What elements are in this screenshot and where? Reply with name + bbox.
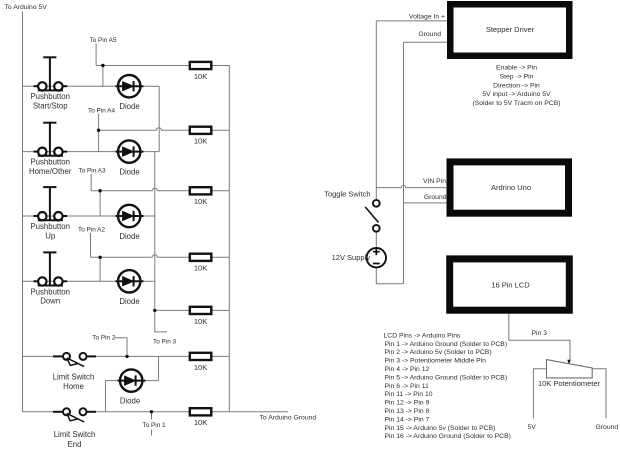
wire diode5 row [106,380,119,382]
svg-text:Pin 12 -> Pin 9: Pin 12 -> Pin 9 [385,400,430,407]
svg-text:To Pin 1: To Pin 1 [143,422,167,429]
svg-text:Pin 1 -> Arduino Ground (Solde: Pin 1 -> Arduino Ground (Solder to PCB) [385,341,508,348]
wire voltage in to stepper [376,20,447,22]
wire row3 button wire [23,215,119,217]
svg-text:Pushbutton: Pushbutton [30,92,69,101]
svg-text:To Pin A4: To Pin A4 [88,108,115,115]
wire row6 resistor right lead [211,355,229,357]
pushbutton Home/Other [29,123,72,176]
svg-text:Pin 11 -> Pin 10: Pin 11 -> Pin 10 [385,391,433,398]
wire row1 resistor right lead [211,65,229,67]
svg-text:10K: 10K [194,197,208,206]
svg-text:Direction -> Pin: Direction -> Pin [493,82,540,89]
svg-text:To Arduino 5V: To Arduino 5V [5,4,48,11]
wire arduino ground [404,202,447,204]
resistor R5 10K [190,307,212,326]
node junction dot row3 [98,189,101,192]
svg-text:10K: 10K [194,317,208,326]
svg-text:Ground: Ground [596,424,619,431]
pushbutton Down [30,252,69,305]
battery B1 12V supply [332,248,386,267]
wire limit end row [23,411,54,413]
wire pin3 row5 wire [155,309,190,311]
wire row1 pin stub [95,44,97,66]
resistor R4 10K [190,254,212,273]
wire ground bus right [403,42,405,284]
svg-text:Ground: Ground [418,31,441,38]
svg-text:Pin 14 -> Pin 7: Pin 14 -> Pin 7 [385,416,430,423]
node junction dot pin1 [150,410,153,413]
svg-text:Enable -> Pin: Enable -> Pin [496,65,537,72]
svg-text:Diode: Diode [119,167,139,176]
svg-text:Ground: Ground [424,194,447,201]
svg-text:Pin 4 -> Pin 12: Pin 4 -> Pin 12 [385,366,430,373]
limit switch Home [53,353,96,391]
svg-text:To Pin 2: To Pin 2 [92,334,116,341]
wire pot left to 5V [533,369,546,419]
svg-text:Limit Switch: Limit Switch [54,430,96,439]
diode D2 [116,140,144,176]
resistor R6 10K [190,353,212,372]
svg-text:Diode: Diode [120,397,140,406]
wire pin2 stub [114,338,127,357]
wire supply to ground bus [376,267,403,283]
resistor R2 10K [190,127,212,146]
wire stepper ground [404,41,448,43]
svg-text:Pin 5 -> Arduino Ground (Solde: Pin 5 -> Arduino Ground (Solder to PCB) [385,374,508,381]
svg-text:10K: 10K [194,363,208,372]
wire pin1 stub [151,412,153,436]
wire right ground bus [228,66,230,412]
wire row4 pin wire with hop [91,255,190,258]
svg-text:Ardrino Uno: Ardrino Uno [491,183,531,192]
svg-text:Toggle Switch: Toggle Switch [324,190,370,199]
wire row3 drop to button [99,191,101,216]
wire row5 resistor right lead [211,309,229,311]
svg-text:Pin 2 -> Arduino 5v (Solder to: Pin 2 -> Arduino 5v (Solder to PCB) [385,349,492,356]
svg-text:To Pin A2: To Pin A2 [78,227,105,234]
wire diode5 anode down to end row [105,381,107,412]
svg-text:Pushbutton: Pushbutton [30,222,69,231]
svg-text:LCD Pins -> Arduino Pins: LCD Pins -> Arduino Pins [384,332,461,339]
diode D3 [116,205,144,241]
svg-text:Pushbutton: Pushbutton [30,287,69,296]
svg-text:To Pin A5: To Pin A5 [90,37,117,44]
wire lcd pin3 to pot [509,314,570,362]
wire row4 drop to button [99,257,101,281]
wire pot right to ground [592,369,606,419]
svg-text:Limit Switch: Limit Switch [53,373,95,382]
svg-text:12V Supply: 12V Supply [332,253,371,262]
svg-text:VIN Pin: VIN Pin [423,178,446,185]
diode D1 [116,75,144,111]
svg-text:10K: 10K [194,264,208,273]
IC U3 16 Pin LCD box [446,255,573,313]
wire row7 resistor right lead [211,411,229,413]
wire row2 resistor right lead [211,129,229,131]
node junction dot row4 [98,256,101,259]
svg-text:16 Pin LCD: 16 Pin LCD [491,280,530,289]
resistor R3 10K [190,187,212,206]
wire row2 button wire [23,151,119,153]
wire row4 button wire [23,280,119,282]
wire row4 resistor right lead [211,256,229,258]
node junction dot pin3 [153,309,156,312]
wire row3 pin stub [90,174,92,191]
wire diode5 cathode up to home row [158,356,160,380]
IC U1 Stepper Driver box [447,1,573,59]
wire row3 pin wire with hop [91,188,190,191]
wire row4 pin stub [90,233,92,257]
node junction dot pin2 [125,355,128,358]
svg-text:Start/Stop: Start/Stop [33,102,68,111]
switch S1 toggle switch [324,190,379,232]
node To Arduino 5V [5,4,48,11]
wire row3 resistor right lead [211,190,229,192]
node junction dot row2 [97,129,100,132]
svg-text:Diode: Diode [119,102,139,111]
svg-text:(Solder to 5V Tracm on PCB): (Solder to 5V Tracm on PCB) [472,100,560,107]
node To Arduino Ground [260,415,317,422]
wire limit home row [23,355,54,357]
wire VIN vertical [376,21,606,419]
diode D5 [118,369,146,405]
pushbutton Up [30,187,69,240]
node stepper notes [472,65,560,108]
svg-text:To Pin A3: To Pin A3 [79,167,106,174]
svg-text:Pin 6 -> Pin 11: Pin 6 -> Pin 11 [385,383,429,390]
wire row1 drop to button [102,66,104,87]
resistor VR1 10K potentiometer [538,360,601,389]
svg-text:10K: 10K [194,418,208,427]
wire arduino VIN with hop [376,185,446,187]
svg-text:Pin 3: Pin 3 [532,330,548,337]
svg-text:Pushbutton: Pushbutton [30,158,69,167]
wire row2 pin stub [98,114,100,131]
svg-text:Pin 13 -> Pin 8: Pin 13 -> Pin 8 [385,408,430,415]
svg-text:Home: Home [63,382,84,391]
svg-text:Pin 3 -> Potentiometer Middle: Pin 3 -> Potentiometer Middle Pin [385,358,487,365]
svg-text:5V input -> Arduino 5V: 5V input -> Arduino 5V [482,91,551,98]
svg-text:Down: Down [40,297,60,306]
pushbutton Start/Stop [30,57,69,110]
svg-text:End: End [68,440,82,449]
svg-text:10K: 10K [194,72,208,81]
wire pin3 stub [155,310,167,332]
resistor R7 10K [190,408,212,427]
resistor R1 10K [190,62,212,81]
wire left 5V bus [22,12,24,412]
svg-text:10K Potentiometer: 10K Potentiometer [538,379,601,388]
wire row2 drop to button [98,130,100,151]
wire toggle to supply [375,232,377,248]
IC U2 Ardrino Uno box [447,158,573,216]
svg-text:Voltage In +: Voltage In + [409,13,445,20]
wire OR vertical main [154,152,156,311]
svg-text:Up: Up [45,231,56,240]
node To Pin 1 [143,422,167,429]
wire row1 pin wire [96,65,190,67]
node LCD notes [384,332,511,440]
svg-text:Home/Other: Home/Other [29,167,72,176]
svg-text:To Arduino Ground: To Arduino Ground [260,415,317,422]
node junction dot row1 [101,64,104,67]
svg-text:5V: 5V [528,424,537,431]
svg-text:To Pin 3: To Pin 3 [153,338,177,345]
svg-text:Stepper Driver: Stepper Driver [486,25,535,34]
limit switch End [53,408,96,449]
node To Pin 3 [153,338,177,345]
svg-text:10K: 10K [194,137,208,146]
node To Pin 2 [92,334,116,341]
svg-text:Diode: Diode [119,232,139,241]
svg-text:Pin 15 -> Arduino 5v (Solder t: Pin 15 -> Arduino 5v (Solder to PCB) [385,425,496,432]
wire OR drop from diode1 [158,86,160,151]
wire row1 button wire [23,85,119,87]
svg-text:Diode: Diode [119,297,139,306]
svg-text:Step -> Pin: Step -> Pin [500,73,534,80]
wire row2 pin wire with hop [99,128,190,131]
wire ground extension [229,411,288,413]
diode D4 [116,270,144,306]
svg-text:Pin 16 -> Arduino Ground (Sold: Pin 16 -> Arduino Ground (Solder to PCB) [385,433,511,440]
